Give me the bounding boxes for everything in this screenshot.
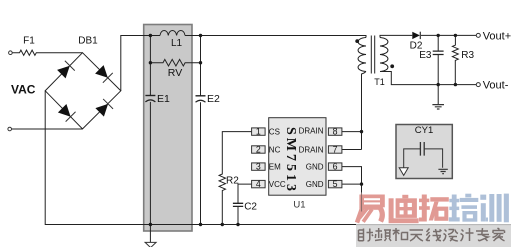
- svg-text:U1: U1: [293, 200, 305, 211]
- svg-text:DB1: DB1: [78, 36, 98, 47]
- svg-text:E1: E1: [157, 93, 170, 105]
- svg-text:E2: E2: [207, 93, 220, 105]
- svg-text:VAC: VAC: [11, 83, 36, 97]
- svg-text:RV: RV: [168, 67, 182, 79]
- svg-text:2: 2: [256, 145, 261, 155]
- svg-text:GND: GND: [306, 162, 324, 171]
- svg-text:1: 1: [256, 127, 261, 137]
- svg-text:R2: R2: [226, 176, 239, 187]
- svg-text:EM: EM: [269, 162, 281, 171]
- svg-text:R3: R3: [461, 50, 474, 61]
- svg-text:DRAIN: DRAIN: [299, 126, 324, 135]
- svg-text:SM7513: SM7513: [283, 127, 298, 194]
- svg-text:Vout+: Vout+: [483, 30, 511, 42]
- svg-text:CY1: CY1: [415, 125, 433, 136]
- svg-text:CS: CS: [269, 127, 280, 136]
- svg-text:GND: GND: [306, 180, 324, 189]
- svg-text:T1: T1: [374, 77, 385, 87]
- svg-text:8: 8: [333, 127, 338, 137]
- svg-text:DRAIN: DRAIN: [299, 145, 324, 154]
- svg-text:NC: NC: [269, 145, 281, 154]
- svg-text:Vout-: Vout-: [483, 80, 509, 92]
- svg-text:E3: E3: [419, 50, 432, 61]
- svg-text:4: 4: [256, 179, 261, 189]
- svg-text:C2: C2: [244, 202, 257, 213]
- svg-text:F1: F1: [23, 36, 35, 47]
- svg-text:5: 5: [333, 179, 338, 189]
- svg-text:6: 6: [333, 162, 338, 172]
- svg-text:L1: L1: [171, 38, 183, 49]
- svg-text:3: 3: [256, 162, 261, 172]
- svg-text:7: 7: [333, 145, 338, 155]
